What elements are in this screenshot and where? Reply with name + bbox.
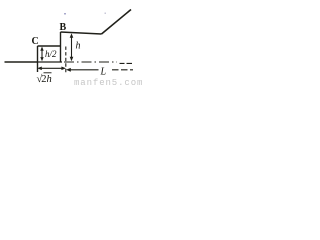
dimension L (left arrow + dashed leader) xyxy=(66,68,133,72)
dimension sqrt(2)h (horizontal double arrow under step) xyxy=(37,67,66,71)
svg-text:L: L xyxy=(100,67,107,78)
wire: step riser at B (with extension down to axis) xyxy=(60,32,62,62)
svg-text:B: B xyxy=(60,22,67,33)
svg-text:h: h xyxy=(76,41,81,52)
node: dashed extension line for L dimension xyxy=(65,47,67,74)
noise speck (blue) xyxy=(64,13,66,15)
wire: left feed line on axis xyxy=(5,61,38,63)
svg-text:C: C xyxy=(32,36,39,47)
wire: slanted conductor rising to upper right xyxy=(102,10,132,35)
watermark manfen5.com xyxy=(74,79,144,88)
dimension h/2 (vertical double arrow) xyxy=(40,47,43,62)
radical overbar xyxy=(44,72,52,74)
wire: step riser at C (with extension below to sqrt2h dimension) xyxy=(37,46,39,72)
wire: top conductor horizontal section xyxy=(61,32,102,34)
wire: step tread C to B xyxy=(38,45,61,47)
dimension h (vertical double arrow) xyxy=(70,33,74,61)
svg-text:√2h: √2h xyxy=(37,73,52,85)
svg-text:h/2: h/2 xyxy=(45,49,57,59)
wire: dash-dot axis centerline xyxy=(38,61,63,63)
noise speck xyxy=(105,13,107,15)
